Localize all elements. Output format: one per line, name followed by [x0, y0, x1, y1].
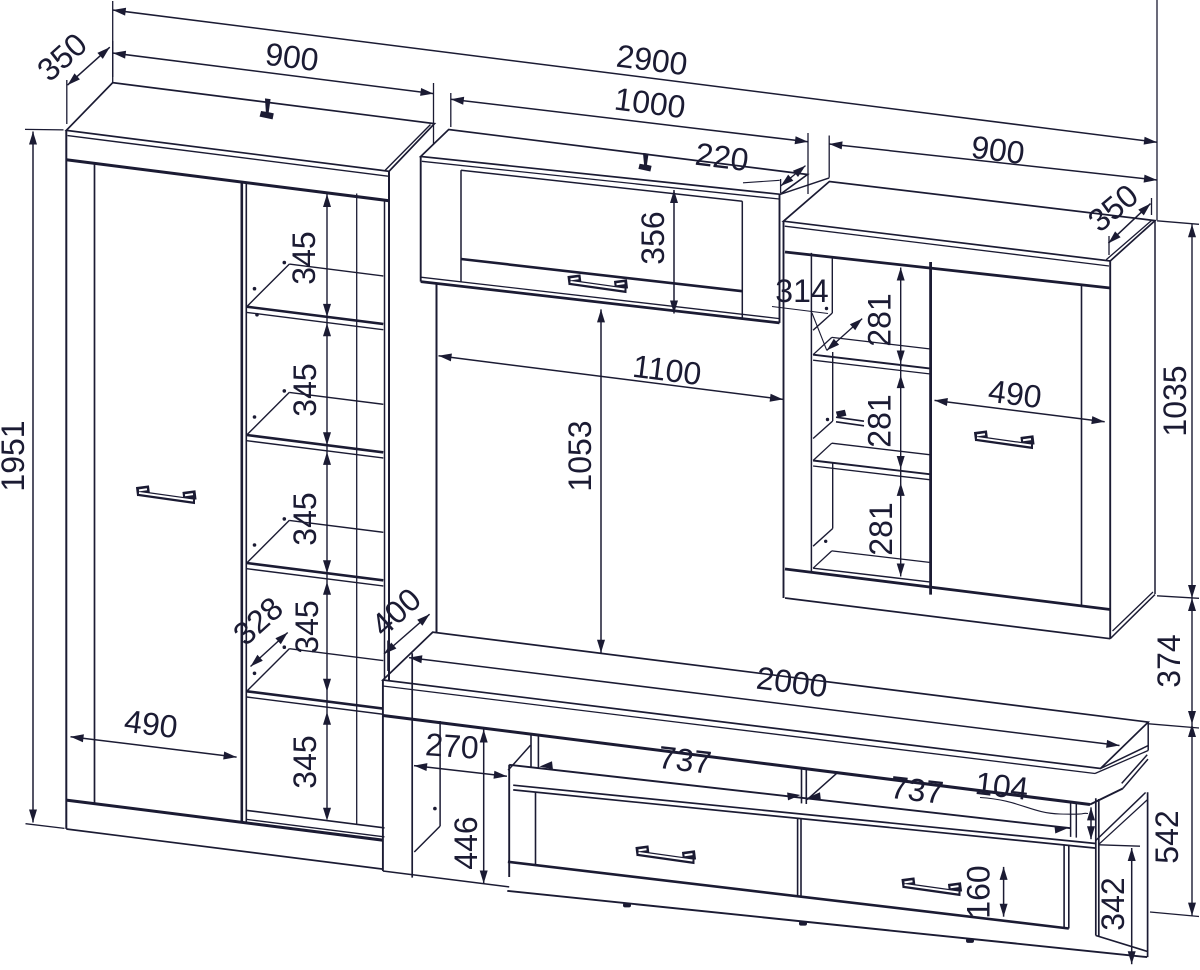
dim 2900 line: [113, 10, 1157, 142]
right cabinet shelf 2 front edge: [813, 461, 929, 475]
dim 1951 extension line top: [25, 128, 64, 131]
stand 2000-dim left extension / left end panel inner edge: [411, 653, 413, 877]
wardrobe shelf 1 top-face left diagonal: [247, 264, 290, 307]
dim 345 #1 arrows: [323, 194, 331, 207]
wardrobe shelf 3 thickness line: [247, 569, 384, 586]
dim 220 line: [781, 166, 806, 186]
dim 374 arrows: [1188, 598, 1196, 611]
svg-text:737: 737: [888, 769, 945, 811]
svg-text:281: 281: [862, 293, 898, 346]
right cabinet shelf 2 support glyph: [836, 417, 864, 421]
dim 374 ext bottom: [1149, 724, 1199, 728]
dim 737 #2 arrows: [808, 792, 821, 800]
corner unit bottom edge: [1096, 936, 1148, 952]
svg-text:356: 356: [635, 211, 671, 264]
dim 350 right ext stubs: [1108, 236, 1110, 255]
upper cabinet roof bracket: [639, 154, 651, 171]
stand top slab front inner line: [383, 686, 1095, 774]
dim 490 right line: [935, 400, 1105, 421]
right cabinet door right gap line: [1081, 285, 1083, 606]
wardrobe shelf 3 front edge: [247, 563, 384, 580]
dim 446 line: [483, 730, 485, 884]
dim 1000 line: [451, 99, 808, 142]
upper cabinet right side top edge: [780, 178, 829, 194]
dim 542 ext bottom: [1150, 912, 1199, 917]
wardrobe shelf column floor bottom line: [247, 819, 385, 837]
wardrobe shelf 4 front edge: [247, 691, 384, 708]
right cabinet door bottom edge: [785, 569, 1110, 610]
dim 900 left ext: [112, 1, 114, 83]
dim 342 line: [1131, 848, 1133, 964]
drawer 1 left edge: [535, 792, 537, 865]
leg panel dot: [433, 807, 437, 811]
wardrobe door right edge: [241, 182, 244, 822]
svg-text:1053: 1053: [562, 420, 598, 491]
wardrobe door handle: [138, 491, 195, 504]
dim 281 vertical line: [900, 268, 902, 577]
wardrobe bottom front edge: [66, 829, 383, 869]
right cabinet interior ceiling diagonal: [813, 313, 832, 330]
right cabinet left front edge: [783, 221, 785, 598]
dim 314 leader V segment: [812, 313, 827, 350]
dim 1100 line: [439, 356, 784, 400]
svg-text:490: 490: [122, 703, 179, 745]
right cabinet top band bottom edge: [785, 252, 1110, 288]
right cabinet interior floor back edge: [832, 551, 930, 563]
stand top slab right end face upper line: [1101, 746, 1149, 769]
wardrobe shelf column floor front edge: [247, 810, 385, 828]
drawer divider double line: [797, 818, 799, 896]
dim 314 line: [827, 319, 862, 351]
dim 350 left line: [68, 47, 110, 85]
dim 104 line: [1090, 807, 1092, 839]
drawer box bottom edge: [507, 891, 1147, 957]
upper cabinet door top edge: [461, 170, 742, 201]
stand left end edge: [382, 680, 384, 871]
wardrobe shelf 3 top-face back edge: [289, 520, 383, 532]
dim 328 line: [251, 633, 288, 667]
dim 900 right ext: [433, 83, 435, 144]
svg-text:314: 314: [775, 273, 828, 309]
stand open shelf support middle pair: [801, 769, 803, 803]
stand top slab right end face lower line: [1095, 751, 1148, 774]
svg-text:270: 270: [424, 726, 480, 766]
right cabinet interior back-left corner vertical: [831, 258, 833, 313]
drawer box left edge: [508, 765, 510, 877]
dim 1035 ext top: [1157, 221, 1199, 225]
middle support depth diagonal: [807, 772, 838, 800]
dim 160 line: [1003, 867, 1005, 917]
wardrobe shelf 1 front edge: [247, 307, 384, 324]
wardrobe shelf 2 top-face back edge: [289, 392, 383, 404]
dim 281 #1 arrows: [897, 268, 905, 281]
svg-text:490: 490: [986, 373, 1043, 415]
wardrobe shelf column right inner edge: [384, 200, 386, 680]
stand end bevel steep pair: [1123, 759, 1148, 788]
svg-text:1951: 1951: [0, 420, 31, 491]
dim 1035 ext bottom: [1157, 596, 1199, 599]
dim 220 leader line: [743, 180, 780, 183]
corner unit front top ext line: [1099, 845, 1140, 846]
niche floor back-left corner vertical: [439, 721, 441, 826]
stand floor line left: [383, 871, 509, 887]
dim 400 ext stub: [387, 641, 390, 672]
svg-text:542: 542: [1149, 810, 1185, 863]
right cabinet shelf 1 thickness line: [813, 360, 929, 374]
svg-text:737: 737: [656, 739, 713, 781]
stand open shelf support left pair: [530, 735, 532, 767]
dim 314 leader: [772, 307, 828, 314]
wardrobe shelf 4 top-face left diagonal: [247, 649, 290, 692]
dim 1951 line: [32, 132, 34, 823]
wardrobe top face: [66, 83, 434, 172]
upper cabinet left panel inner edge: [460, 170, 462, 282]
dim 1000 right ext: [807, 133, 809, 194]
dim 900 right line: [829, 144, 1157, 180]
svg-text:446: 446: [448, 816, 484, 869]
dim 350 right line: [1108, 204, 1150, 244]
svg-text:220: 220: [693, 136, 750, 178]
wardrobe interior back corner vertical: [356, 194, 358, 825]
upper cabinet top front edge inner line: [422, 161, 779, 199]
dim 1053 line: [600, 309, 602, 652]
stand top face outline: [383, 632, 1148, 768]
right cabinet cell2 back corner vertical: [832, 352, 834, 421]
corner unit right edge: [1147, 792, 1149, 957]
upper cabinet bottom edge: [421, 282, 780, 323]
dim 490 left line: [71, 737, 237, 757]
svg-text:104: 104: [973, 765, 1030, 807]
upper cabinet bottom slab top line: [421, 277, 780, 318]
wardrobe divider panel edge: [245, 183, 247, 823]
drawer fronts top rail pair: [513, 785, 1096, 843]
svg-text:1035: 1035: [1157, 365, 1193, 436]
drawer 1 handle: [637, 851, 694, 864]
dim 345 #3 arrows: [323, 452, 331, 465]
wardrobe shelf 2 thickness line: [247, 441, 384, 458]
upper cabinet right front edge: [779, 194, 781, 323]
dim 1035/374/542 vertical line: [1191, 224, 1193, 915]
wardrobe shelf 4 top-face back edge: [289, 649, 383, 661]
dim 737 #1 arrows: [540, 761, 553, 769]
svg-text:900: 900: [263, 36, 320, 78]
svg-text:345: 345: [289, 600, 325, 653]
wardrobe shelf 3 top-face left diagonal: [247, 520, 290, 563]
wardrobe top slab front edge inner line: [68, 136, 389, 177]
upper cabinet door bottom edge: [461, 259, 742, 291]
corner unit left edge pair: [1095, 798, 1097, 935]
right cabinet right front edge: [1109, 261, 1111, 639]
right cabinet shelf 1 back edge: [832, 337, 930, 349]
dim 1951 extension line bottom: [26, 824, 65, 829]
wardrobe door left edge: [94, 163, 96, 803]
svg-text:900: 900: [969, 129, 1026, 171]
dim 345 #2 arrows: [323, 323, 331, 336]
stand feet nubs: [623, 903, 631, 908]
dim 2900 right ext: [1156, 0, 1158, 220]
right cabinet bottom slab bottom edge: [785, 598, 1110, 639]
svg-text:345: 345: [287, 735, 323, 788]
right cabinet bottom back depth edges: [1110, 595, 1155, 639]
stand under-top bevel segment: [1090, 789, 1123, 805]
right cabinet shelf 1 diagonal: [813, 337, 832, 354]
wardrobe shelf 2 top-face left diagonal: [247, 392, 290, 435]
right cabinet cell3 corner diagonal: [813, 529, 833, 547]
right cabinet shelf pin dots: [825, 307, 828, 310]
right cabinet cell3 back corner vertical: [832, 462, 834, 529]
wardrobe front band bottom edge: [66, 160, 389, 201]
wardrobe shelf 1 thickness line: [247, 312, 384, 329]
niche upright edge: [436, 283, 438, 632]
dim 400 line: [384, 614, 430, 654]
dim 104 leader: [980, 798, 1088, 815]
dim 345 #5 arrows: [323, 712, 331, 725]
right cabinet cell2 corner diagonal: [813, 421, 833, 439]
dim 900 line: [113, 53, 434, 94]
upper cabinet left front edge: [420, 157, 422, 282]
right cabinet column left edge: [810, 253, 812, 571]
right cabinet top right edge inner line: [1106, 220, 1152, 259]
right cabinet top front edge inner line: [785, 226, 1109, 266]
upper cabinet door handle: [569, 280, 626, 293]
right cabinet top face: [784, 182, 1156, 262]
right cabinet back right edge: [1154, 221, 1156, 594]
wardrobe left front edge: [65, 130, 67, 829]
dim 356 line: [673, 190, 675, 314]
drawer box top-left depth diagonal: [508, 745, 530, 770]
dim 281 #2 arrows: [897, 375, 905, 388]
drawer2 right edge double line: [1063, 845, 1065, 928]
right cabinet shelf 1 front edge: [813, 355, 929, 369]
svg-text:281: 281: [863, 502, 899, 555]
right cabinet door handle: [976, 436, 1033, 449]
svg-text:342: 342: [1095, 877, 1131, 930]
upper cabinet right panel inner edge: [741, 201, 743, 318]
wardrobe shelf 1 top-face back edge: [289, 264, 383, 276]
stand top slab right end cap: [1147, 722, 1149, 750]
wardrobe right front edge: [388, 171, 390, 681]
dim 542 arrows: [1188, 724, 1196, 737]
stand under-top heavy line: [383, 716, 1090, 805]
svg-text:281: 281: [862, 394, 898, 447]
wardrobe shelf 2 front edge: [247, 435, 384, 452]
dim 281 #3 arrows: [897, 483, 905, 496]
right cabinet shelf 2 back edge: [832, 443, 930, 455]
svg-text:374: 374: [1151, 634, 1187, 687]
right cabinet interior floor line: [813, 568, 929, 582]
right cabinet column right edge: [929, 262, 932, 595]
drawer box top edge: [509, 765, 1070, 828]
wardrobe shelf 4 thickness line: [247, 697, 384, 714]
dim 900 right left ext: [828, 136, 830, 178]
right cabinet shelf 2 thickness line: [813, 466, 929, 480]
upper cabinet top face: [421, 130, 808, 195]
drawer fronts bottom heavy edge: [508, 862, 1069, 929]
corner unit top face depth edge pair: [1096, 793, 1146, 841]
svg-text:345: 345: [287, 363, 323, 416]
wardrobe top slab right edge inner line: [385, 125, 430, 171]
dim 270 line: [414, 766, 507, 777]
svg-text:345: 345: [287, 492, 323, 545]
wardrobe plinth top edge: [66, 800, 383, 840]
niche floor depth diagonal: [414, 826, 440, 852]
wardrobe roof bracket: [260, 99, 273, 119]
dim 345 #4 arrows: [323, 582, 331, 595]
dim 220 ext stub: [780, 179, 782, 193]
wardrobe shelf pin dots: [283, 261, 287, 265]
right cabinet shelf 2 diagonal: [813, 443, 832, 460]
svg-text:160: 160: [961, 865, 997, 918]
dim 350 left ext stubs: [66, 80, 68, 124]
dim 1035 arrows: [1188, 224, 1196, 237]
svg-text:345: 345: [286, 231, 322, 284]
right cabinet interior floor diagonal: [813, 551, 832, 568]
dim 345 vertical line: [326, 193, 328, 811]
dim 1000 left ext: [450, 93, 452, 127]
slot left wall pair: [1070, 802, 1072, 837]
dim 2000 line: [409, 658, 1120, 746]
drawer 2 handle: [903, 883, 960, 896]
